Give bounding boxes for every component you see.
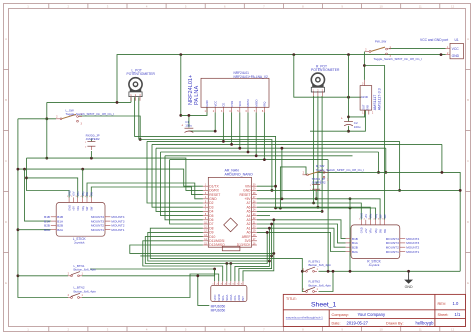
svg-text:VRx: VRx xyxy=(369,213,373,219)
svg-text:U1: U1 xyxy=(455,38,459,42)
svg-text:C: C xyxy=(467,159,469,163)
svg-text:+: + xyxy=(341,117,343,121)
wire NRF pin2 down xyxy=(214,113,216,132)
svg-text:SCK: SCK xyxy=(238,101,242,107)
junction MPU pin4 xyxy=(225,262,228,265)
junction pot/A5 xyxy=(321,210,324,213)
svg-text:E: E xyxy=(5,281,7,285)
svg-text:11: 11 xyxy=(419,4,422,8)
junction pot3 row / GND run xyxy=(271,189,274,192)
svg-text:11: 11 xyxy=(419,327,422,331)
svg-text:MOUNT1: MOUNT1 xyxy=(406,250,419,254)
svg-text:hellboygb: hellboygb xyxy=(416,321,435,326)
wire row2 drop to R_SW run xyxy=(441,144,443,172)
svg-text:MOUNT1: MOUNT1 xyxy=(386,250,399,254)
junction row6 drop / btn rail xyxy=(327,270,330,273)
svg-text:easyeda.com/hellboygb/sch-1: easyeda.com/hellboygb/sch-1 xyxy=(286,316,323,320)
wire D9 to MPU pin6 xyxy=(148,232,270,281)
svg-text:B2A: B2A xyxy=(44,228,51,232)
svg-text:Toggle_Switch_SPDT_On_Off_On_I: Toggle_Switch_SPDT_On_Off_On_I xyxy=(374,57,423,61)
junction riser / R_BTN1 xyxy=(301,270,304,273)
wire row to nano pin xyxy=(156,148,203,211)
svg-text:GND: GND xyxy=(405,285,413,289)
svg-text:Toggle_Switch_SPDT_On_Off_On_I: Toggle_Switch_SPDT_On_Off_On_I xyxy=(66,112,115,116)
wire R_BTN1 left lead xyxy=(302,270,305,272)
svg-text:TITLE:: TITLE: xyxy=(286,297,297,301)
svg-text:MOUNT1: MOUNT1 xyxy=(91,228,104,232)
junction left rail / stick pin4 xyxy=(17,228,20,231)
wire A7 to stick pin1 xyxy=(257,203,361,220)
wire R_BTN2 right up xyxy=(319,271,334,291)
wire A1 drop to hook xyxy=(268,228,270,261)
junction TX/+5V xyxy=(315,197,318,200)
wire h208 to stick pin4 xyxy=(276,208,376,220)
toggle switch L_SW xyxy=(56,109,114,126)
junction A0 row / drop xyxy=(266,231,269,234)
svg-text:+: + xyxy=(181,123,183,127)
svg-text:+5V: +5V xyxy=(364,228,368,233)
junction pot/A6 xyxy=(317,206,320,209)
push button L_BTN1 xyxy=(68,264,97,277)
wire A2 drop to hook xyxy=(271,224,273,256)
junction NRF pin/row xyxy=(255,154,258,157)
junction NRF pin/row xyxy=(238,147,241,150)
junction GND symbol xyxy=(407,270,410,273)
svg-text:D12/MISO: D12/MISO xyxy=(209,243,225,247)
wire L_BTN1 left xyxy=(18,275,68,277)
wire R_POT pin3 down to A5 net xyxy=(321,96,323,211)
svg-text:Your Company: Your Company xyxy=(358,312,386,317)
wire row4 drop to R_SW run xyxy=(378,152,380,172)
junction C1 / NRF GND xyxy=(179,114,182,117)
wire VIN pin xyxy=(257,185,276,187)
junction NRF VCC / C1 xyxy=(214,130,217,133)
push button L_BTN2 xyxy=(68,286,97,299)
svg-text:PW_SW: PW_SW xyxy=(375,40,387,44)
wire MPU pin4 drop xyxy=(226,264,228,282)
wire MPU VCC run xyxy=(90,268,215,270)
junction R_SW / h208 xyxy=(279,207,282,210)
wire row to nano pin xyxy=(170,160,203,224)
junction NRF pin/row xyxy=(263,158,266,161)
svg-text:Company:: Company: xyxy=(332,313,349,317)
module U NRF24L01 xyxy=(188,71,269,113)
svg-text:Date:: Date: xyxy=(332,322,341,326)
svg-text:CSN: CSN xyxy=(230,101,234,107)
junction A2 row / drop xyxy=(270,223,273,226)
svg-text:A: A xyxy=(467,37,469,41)
wire stick left pin2 xyxy=(25,169,51,221)
wire bundle row xyxy=(156,147,386,149)
wire stick left pin4 from rail xyxy=(18,229,51,231)
svg-text:GND: GND xyxy=(360,227,364,233)
svg-text:SW: SW xyxy=(90,191,94,196)
junction A3 row / drop xyxy=(272,218,275,221)
toggle switch PW_SW xyxy=(365,40,422,61)
wire bundle row xyxy=(152,143,442,145)
wire bundle row xyxy=(161,151,379,153)
wire NRF pin drop xyxy=(231,113,233,145)
svg-text:SW: SW xyxy=(378,228,382,233)
junction VIN xyxy=(274,185,277,188)
wire row to nano pin xyxy=(161,152,203,216)
junction NRF pin/row xyxy=(247,151,250,154)
junction C2 bottom xyxy=(347,130,350,133)
wire D8 to right buttons riser xyxy=(150,228,305,291)
wire NRF pin drop xyxy=(239,113,241,149)
wire gnd run left xyxy=(310,130,349,132)
wire L_POT pin1 to L_SW branch xyxy=(47,101,131,103)
svg-text:Button_6x6_4pin: Button_6x6_4pin xyxy=(309,263,332,267)
wire L_SW drop to RX row xyxy=(46,119,48,158)
svg-text:E: E xyxy=(467,281,469,285)
junction +5V riser xyxy=(281,197,284,200)
svg-text:2019-05-27: 2019-05-27 xyxy=(347,321,369,326)
junction PW branch xyxy=(363,64,366,67)
wire C1 bottom to NRF VCC xyxy=(189,130,215,133)
wire D11 to MPU pin3 xyxy=(143,241,223,281)
wire MPU pin1 xyxy=(214,269,216,281)
wire NRF pin drop xyxy=(263,113,265,160)
svg-text:GND: GND xyxy=(361,95,369,99)
wire VCC to R_STICK pin6 xyxy=(364,66,384,220)
push button R_BTN1 xyxy=(303,259,332,272)
junction stick Lpin2 tap xyxy=(23,168,26,171)
wire bundle row xyxy=(170,159,329,161)
push button R_BTN2 xyxy=(303,280,332,293)
ground GND xyxy=(404,271,413,289)
wire A2 to R_STICK xyxy=(257,224,346,243)
regulator U2 AMS1117-3.3 xyxy=(360,80,381,115)
svg-text:MPU6050: MPU6050 xyxy=(211,308,226,312)
svg-text:12: 12 xyxy=(451,327,455,331)
joystick R_STICK xyxy=(346,213,420,267)
junction riser / GND rail xyxy=(349,270,352,273)
svg-text:12: 12 xyxy=(451,4,455,8)
svg-text:ARDUINO_NANO: ARDUINO_NANO xyxy=(225,172,253,176)
junction VIN / h208 xyxy=(274,207,277,210)
wire stick pin6 to RESET xyxy=(91,187,203,198)
wire PW_SW to U1 VCC xyxy=(389,48,446,50)
wire A6 to stick pin3 xyxy=(257,207,370,220)
svg-text:AMS1117: AMS1117 xyxy=(373,95,377,111)
junction L_SW / pot3 row xyxy=(139,138,142,141)
wire row3 drop to R_SW run xyxy=(385,148,387,172)
wire D12 to MPU pin8 xyxy=(130,245,274,281)
junction AMS gnd / C2 xyxy=(347,96,350,99)
junction stick pin4 tap xyxy=(81,168,84,171)
MCU U3 ARDUINO_NANO xyxy=(203,168,257,250)
svg-text:100u: 100u xyxy=(354,125,361,129)
wire GND rail bottom right xyxy=(319,270,461,272)
svg-text:VCC: VCC xyxy=(213,101,217,107)
junction left drop xyxy=(25,177,28,180)
svg-text:MISO: MISO xyxy=(254,99,258,107)
junction pot/A7 xyxy=(312,202,315,205)
wire L_BTN2 to MPU pin2 xyxy=(82,274,219,298)
svg-text:Button_6x6_4pin: Button_6x6_4pin xyxy=(74,289,97,293)
wire stick pin5 to GND pin xyxy=(87,183,203,199)
wire left drop to stick top pin1 xyxy=(27,158,70,197)
junction hook1 / A3 drop xyxy=(272,252,275,255)
wire L_BTN1 right xyxy=(82,269,215,276)
junction top rail / R_POT branch xyxy=(292,53,295,56)
svg-text:CE: CE xyxy=(222,103,226,107)
wire A3 to R_STICK xyxy=(257,220,346,239)
svg-text:Drawn By:: Drawn By: xyxy=(386,322,404,326)
wire NRF pin1 GND xyxy=(181,108,207,116)
wire TX jumper to +5V net xyxy=(315,191,317,199)
svg-text:TAB: TAB xyxy=(365,105,369,110)
svg-text:100u: 100u xyxy=(185,124,192,128)
svg-text:SW: SW xyxy=(383,214,387,219)
svg-text:Sheet_1: Sheet_1 xyxy=(311,301,337,308)
wire bundle row xyxy=(165,155,353,157)
wire row6 drop to button rail xyxy=(327,160,329,272)
svg-text:MOSI: MOSI xyxy=(246,99,250,106)
svg-text:Joystick: Joystick xyxy=(74,241,85,245)
wire branch below MPU xyxy=(198,276,210,306)
wire to D1/TX xyxy=(18,169,203,186)
junction L_SW / RX row xyxy=(45,157,48,160)
wire to stick top pin3 xyxy=(27,178,78,198)
junction NRF pin/row xyxy=(230,143,233,146)
svg-text:1.0: 1.0 xyxy=(453,301,459,306)
svg-text:REV:: REV: xyxy=(438,302,447,306)
svg-text:SW: SW xyxy=(90,206,94,211)
wire RX jumper lead up xyxy=(90,139,92,142)
wire row to nano pin xyxy=(152,144,203,207)
wire rail to AMS GND pin xyxy=(294,55,361,98)
wire C2 bottom gnd xyxy=(349,110,366,131)
wire row to nano pin xyxy=(147,141,203,203)
svg-text:B2A: B2A xyxy=(352,250,359,254)
wire A1 to R_STICK xyxy=(257,228,346,247)
svg-text:VCC: VCC xyxy=(452,47,460,51)
junction R_SW / row2 drop xyxy=(441,171,444,174)
wire +5V riser xyxy=(281,148,283,199)
svg-text:1/1: 1/1 xyxy=(455,312,461,317)
svg-text:Sheet:: Sheet: xyxy=(438,313,449,317)
wire into L_POT pin1 xyxy=(130,97,132,102)
svg-text:AMS1117-3.3: AMS1117-3.3 xyxy=(377,88,381,110)
wire NRF pin drop xyxy=(247,113,249,153)
junction L_BTN1 / branch xyxy=(196,274,199,277)
junction row4 / R_SW run xyxy=(377,171,380,174)
wire R_POT pin1 down to A7 net xyxy=(313,96,315,203)
wire bundle row xyxy=(147,140,400,142)
junction +5V/row3 xyxy=(281,147,284,150)
wire stick top pin4 up xyxy=(82,169,84,197)
wire NRF pin drop xyxy=(255,113,257,156)
svg-text:B2A: B2A xyxy=(57,228,64,232)
wire A5 to R_POT pin3 xyxy=(257,210,322,212)
jumper RX/D0_JP xyxy=(85,134,100,150)
junction row1/GND xyxy=(398,189,401,192)
title block xyxy=(283,294,465,326)
svg-text:JUMPER2: JUMPER2 xyxy=(312,181,326,185)
svg-text:A: A xyxy=(5,37,7,41)
wire R_POT pin2 down to A6 net xyxy=(317,96,319,207)
svg-text:10: 10 xyxy=(380,4,384,8)
wire TX jumper lead up xyxy=(315,182,317,185)
joystick L_STICK xyxy=(44,190,125,244)
module U4 MPU6050 xyxy=(211,281,247,312)
junction rail / TX row xyxy=(17,168,20,171)
svg-text:Button_6x6_4pin: Button_6x6_4pin xyxy=(309,283,332,287)
wire bus to MPU pin7 xyxy=(140,256,271,281)
junction NRF pin/row xyxy=(222,140,225,143)
svg-text:INT: INT xyxy=(241,296,245,301)
junction MPU pin5 xyxy=(229,262,232,265)
junction left rail / L_BTN1 xyxy=(17,274,20,277)
junction top rail / C1 branch xyxy=(179,53,182,56)
wire down to L_SW xyxy=(46,102,48,118)
junction top rail / C2 branch xyxy=(347,53,350,56)
svg-text:GND: GND xyxy=(452,54,460,58)
junction MPU VCC xyxy=(213,268,216,271)
junction GND run end xyxy=(459,189,462,192)
junction +5V / riser xyxy=(349,197,352,200)
junction at L_SW input xyxy=(45,117,48,120)
svg-text:NRF24L01+: NRF24L01+ xyxy=(188,75,194,105)
svg-text:10: 10 xyxy=(380,327,384,331)
junction C1 top xyxy=(188,114,191,117)
svg-text:D: D xyxy=(467,220,469,224)
svg-text:D: D xyxy=(5,220,7,224)
junction hook2 / A2 drop xyxy=(270,255,273,258)
wire top VCC rail xyxy=(117,55,446,103)
wire riser down to GND rail xyxy=(349,199,351,271)
svg-text:IRQ: IRQ xyxy=(263,101,267,107)
svg-text:B: B xyxy=(467,98,469,102)
port U1 VCC and GND xyxy=(420,38,463,59)
junction rail drop / pot1 xyxy=(116,101,119,104)
svg-text:D13/SCK: D13/SCK xyxy=(237,243,252,247)
svg-text:OUT: OUT xyxy=(362,104,366,110)
svg-text:PA LNA: PA LNA xyxy=(194,86,200,105)
toggle switch R_SW xyxy=(303,164,365,181)
svg-text:VRx: VRx xyxy=(76,205,80,211)
wire AMS out stub A xyxy=(349,110,365,117)
svg-text:POTENTIOMETER: POTENTIOMETER xyxy=(311,68,340,72)
wire A4 stub xyxy=(257,215,270,217)
wire PW_SW to AMS1117 VIN xyxy=(363,52,365,80)
svg-text:POTENTIOMETER: POTENTIOMETER xyxy=(127,72,156,76)
wire L_SW output down to pot3 row xyxy=(79,116,140,140)
svg-text:MOUNT1: MOUNT1 xyxy=(111,228,124,232)
junction row3 / R_SW run xyxy=(384,171,387,174)
wire C2 top xyxy=(348,55,350,122)
svg-text:SW: SW xyxy=(383,228,387,233)
potentiometer L_POT xyxy=(127,68,156,100)
junction RX jumper xyxy=(90,157,93,160)
svg-text:B: B xyxy=(5,98,7,102)
wire D10 to MPU pin4 and A0 drop xyxy=(145,232,267,263)
svg-text:Toggle_Switch_SPDT_On_Off_On_I: Toggle_Switch_SPDT_On_Off_On_I xyxy=(316,168,365,172)
svg-text:VCC and GND port: VCC and GND port xyxy=(420,38,448,42)
junction hook3 / A1 drop xyxy=(268,260,271,263)
capacitor C2 100u xyxy=(341,117,361,129)
svg-text:VRx: VRx xyxy=(369,228,373,234)
svg-text:Button_6x6_4pin: Button_6x6_4pin xyxy=(74,268,97,272)
svg-text:C: C xyxy=(5,159,7,163)
svg-text:JUMPER2: JUMPER2 xyxy=(86,137,100,141)
wire C1 branch from rail xyxy=(180,55,182,116)
wire RX jumper lead down xyxy=(90,151,92,158)
wire row to nano pin xyxy=(165,156,203,220)
potentiometer R_POT xyxy=(311,65,340,97)
svg-text:VRx: VRx xyxy=(76,191,80,197)
wire row1 drop to GND run xyxy=(399,141,401,190)
wire MPU pin5 drop xyxy=(230,264,232,282)
svg-text:+5V: +5V xyxy=(72,206,76,211)
wire L_POT pin3 drop xyxy=(138,97,140,139)
wire L_POT pin3 row xyxy=(139,140,272,191)
wire A3 drop to hook xyxy=(273,220,275,254)
junction btn2 / rail xyxy=(332,270,335,273)
junction top rail near U1 xyxy=(440,53,443,56)
wire L_POT pin2 row xyxy=(135,97,276,208)
jumper TX/D1_JP xyxy=(310,177,326,192)
svg-text:Joystick: Joystick xyxy=(369,263,380,267)
svg-text:GND: GND xyxy=(205,100,209,106)
wire NRF pin drop xyxy=(222,113,224,142)
svg-text:NRF24L01+PA-LNA_V2: NRF24L01+PA-LNA_V2 xyxy=(234,75,268,79)
svg-text:VRy: VRy xyxy=(81,205,85,211)
wire R_SW left down xyxy=(280,167,306,208)
junction riser / h208 xyxy=(349,207,352,210)
svg-text:GND: GND xyxy=(67,205,71,211)
wire +5V run to stick pin5 xyxy=(257,199,380,220)
wire C1 top lead xyxy=(188,115,190,127)
wire GND pin long right xyxy=(257,189,460,191)
junction A1 row / drop xyxy=(268,227,271,230)
wire A0 to R_STICK xyxy=(257,232,346,251)
capacitor C1 100u xyxy=(181,120,193,132)
wire R_SW output right and down xyxy=(316,172,460,271)
svg-text:SW: SW xyxy=(85,206,89,211)
wire L_SW left xyxy=(18,118,56,120)
svg-text:VRy: VRy xyxy=(374,228,378,234)
wire RX net to D0 xyxy=(27,158,203,190)
wire left rail down to L_BTN2 xyxy=(18,119,68,298)
junction C2 / AMS out xyxy=(347,116,350,119)
